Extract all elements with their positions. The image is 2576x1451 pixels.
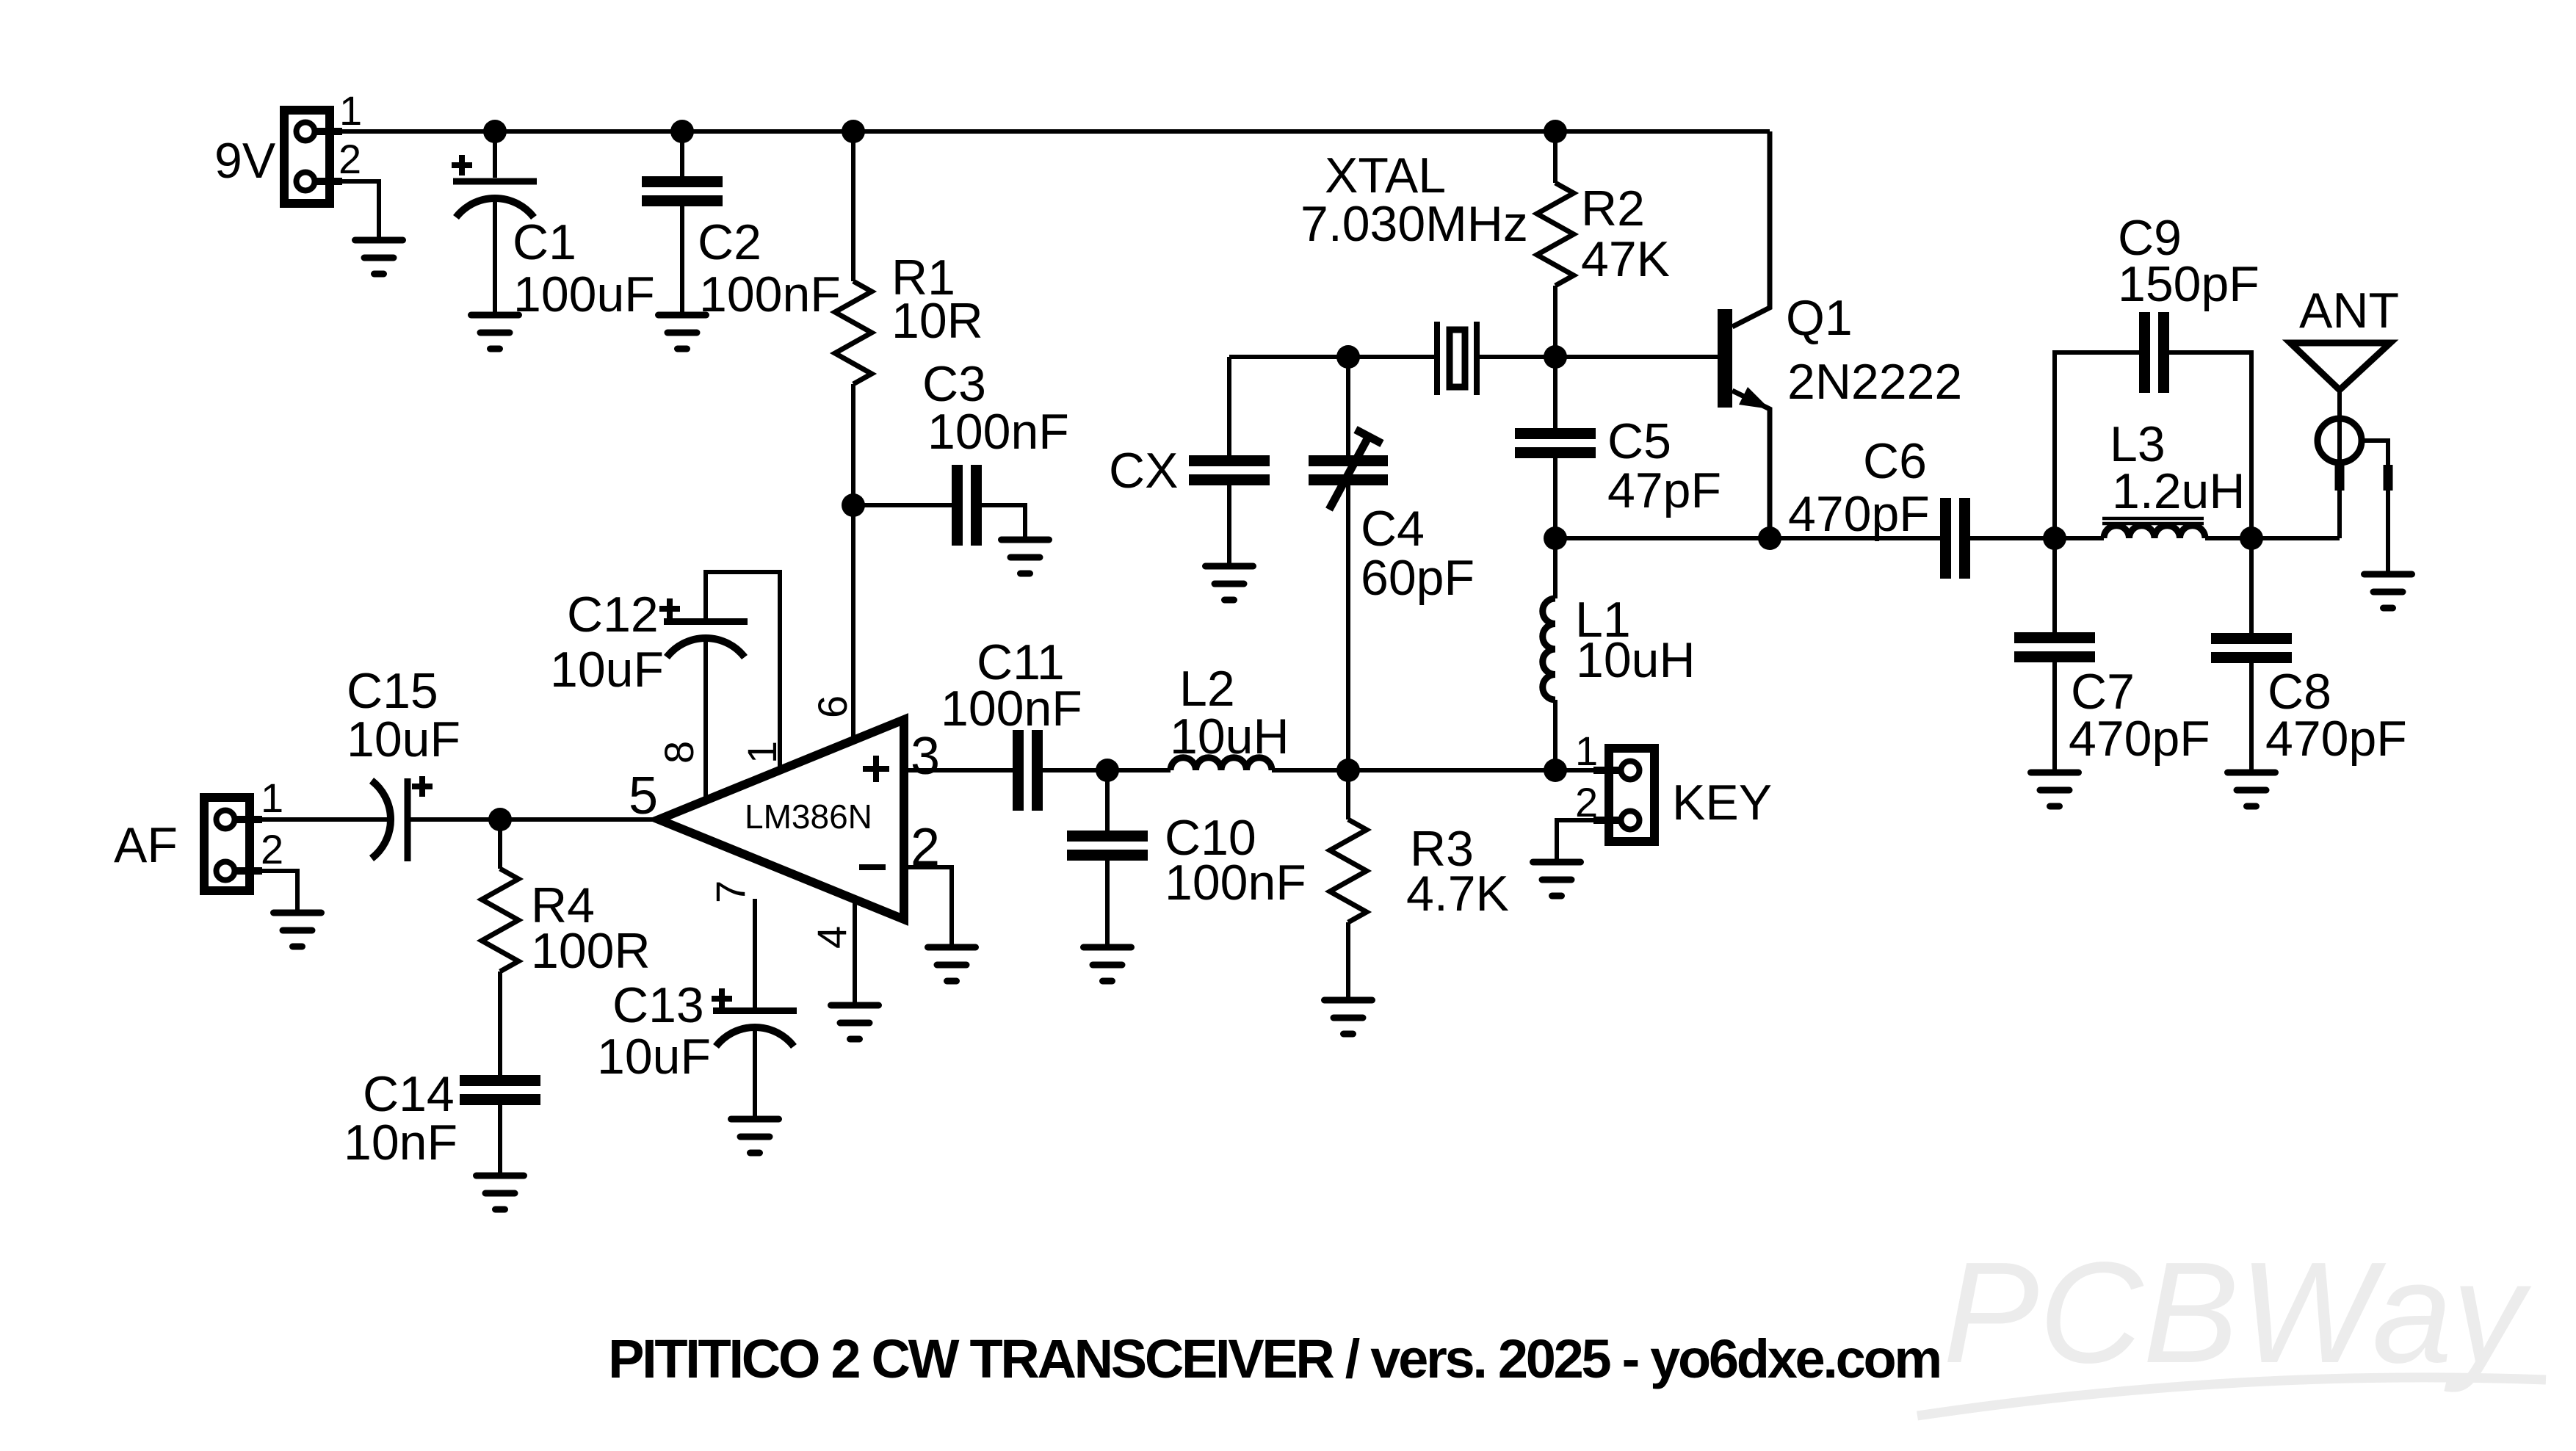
- wire U1 pin3 to C11: [904, 768, 1013, 772]
- svg-text:KEY: KEY: [1672, 775, 1772, 831]
- ground U1 pin4: [831, 1005, 879, 1039]
- svg-text:LM386N: LM386N: [745, 797, 872, 836]
- svg-text:C2: C2: [698, 214, 761, 270]
- svg-text:10uF: 10uF: [597, 1029, 711, 1085]
- svg-text:6: 6: [809, 695, 855, 718]
- wire C12 top to pin1: [706, 572, 780, 771]
- svg-text:10nF: 10nF: [344, 1115, 457, 1170]
- crystal XTAL: [1348, 322, 1555, 395]
- capacitor C10: [1067, 770, 1148, 947]
- ground C2: [659, 315, 706, 349]
- wire bus R1 to R2: [853, 129, 1555, 134]
- resistor R1: [835, 131, 872, 505]
- ground C13: [731, 1119, 779, 1153]
- svg-text:CX: CX: [1109, 443, 1178, 499]
- wire L3 node to antenna: [2251, 536, 2340, 540]
- ground 9V pin2: [355, 240, 403, 274]
- wire KEY pin2 to ground: [1557, 820, 1595, 862]
- ground C10: [1084, 947, 1132, 981]
- ground C8: [2228, 772, 2276, 806]
- svg-text:4.7K: 4.7K: [1406, 866, 1509, 922]
- inductor L2: [1107, 758, 1348, 770]
- watermark PCBWay: [1917, 1232, 2546, 1416]
- svg-text:AF: AF: [114, 817, 178, 873]
- svg-text:1: 1: [1575, 728, 1598, 774]
- svg-text:2: 2: [261, 826, 283, 872]
- wire base node to Q1: [1555, 355, 1718, 359]
- node bus-C2: [670, 120, 694, 143]
- node L3 right: [2240, 527, 2263, 550]
- node R1-C3-pin6: [842, 493, 865, 517]
- transistor Q1 2N2222: [1718, 131, 1770, 538]
- wire emitter row: [1555, 536, 1770, 540]
- svg-text:C14: C14: [363, 1066, 455, 1122]
- svg-text:10uH: 10uH: [1170, 709, 1289, 764]
- ground CX: [1206, 566, 1253, 600]
- ground R3: [1325, 1000, 1372, 1034]
- node C4-XTAL-CX: [1336, 345, 1360, 369]
- inductor L1: [1543, 538, 1555, 770]
- capacitor C1 (polarized): [452, 131, 537, 315]
- svg-text:ANT: ANT: [2299, 283, 2399, 339]
- ground ANT shield: [2365, 574, 2412, 608]
- capacitor CX: [1189, 357, 1270, 566]
- svg-text:150pF: 150pF: [2118, 256, 2260, 312]
- svg-text:5: 5: [629, 767, 658, 825]
- svg-text:9V: 9V: [214, 133, 276, 189]
- capacitor C7: [2014, 538, 2095, 772]
- capacitor C5: [1515, 357, 1596, 538]
- wire pin6 of U1: [851, 505, 855, 740]
- wire AF pin1 to C15: [254, 817, 389, 822]
- svg-text:C15: C15: [347, 663, 438, 719]
- wire KEY pin1: [1555, 768, 1595, 772]
- node C11-C10-L2: [1096, 759, 1119, 782]
- wire C15 to U1 pin5: [410, 817, 659, 822]
- wire bus C1 to C2: [495, 129, 682, 134]
- svg-text:2: 2: [339, 136, 361, 182]
- node L2-R3-C4: [1336, 759, 1360, 782]
- capacitor C6: [1770, 498, 2055, 579]
- antenna ANT: [2290, 343, 2390, 574]
- svg-text:10uF: 10uF: [550, 642, 664, 698]
- svg-text:C6: C6: [1863, 433, 1927, 489]
- wire CX to C4 node: [1229, 355, 1348, 359]
- svg-text:10uH: 10uH: [1576, 632, 1696, 688]
- resistor R2: [1537, 131, 1574, 357]
- ground C14: [477, 1176, 524, 1209]
- svg-text:C1: C1: [513, 214, 576, 270]
- svg-text:60pF: 60pF: [1361, 550, 1475, 606]
- node L3 left: [2043, 527, 2066, 550]
- svg-text:470pF: 470pF: [2265, 711, 2407, 767]
- ground C7: [2031, 772, 2079, 806]
- connector KEY: [1593, 748, 1654, 842]
- svg-text:7.030MHz: 7.030MHz: [1300, 196, 1528, 252]
- svg-text:C13: C13: [612, 977, 704, 1033]
- node C5-L1: [1544, 527, 1567, 550]
- node bus-R2: [1544, 120, 1567, 143]
- node bus-R1: [842, 120, 865, 143]
- svg-text:47pF: 47pF: [1607, 463, 1721, 518]
- capacitor C3: [853, 465, 1025, 546]
- svg-text:100nF: 100nF: [941, 681, 1082, 737]
- svg-text:7: 7: [707, 880, 753, 903]
- wire U1 pin4 to ground: [853, 899, 857, 1005]
- svg-text:2N2222: 2N2222: [1787, 354, 1962, 410]
- resistor R3: [1330, 770, 1367, 1000]
- svg-text:C12: C12: [567, 587, 659, 643]
- wire C12 bottom to pin8: [703, 638, 708, 800]
- svg-text:470pF: 470pF: [2069, 711, 2210, 767]
- wire 9V pin1 to C1: [334, 129, 495, 134]
- resistor R4: [482, 819, 518, 1075]
- svg-text:10uF: 10uF: [347, 712, 460, 767]
- wire L2 node to KEY node: [1348, 768, 1555, 772]
- svg-text:1: 1: [261, 775, 283, 821]
- svg-text:PCBWay: PCBWay: [1943, 1232, 2531, 1393]
- svg-text:100uF: 100uF: [513, 267, 655, 322]
- capacitor C13 (polarized): [712, 899, 797, 1119]
- wire C11 to C10 node: [1043, 768, 1107, 772]
- capacitor C8: [2211, 538, 2292, 772]
- svg-text:C4: C4: [1361, 501, 1425, 557]
- wire 9V pin2 to ground: [334, 181, 379, 240]
- capacitor C11: [1013, 730, 1043, 811]
- ground C1: [471, 315, 519, 349]
- wire AF pin2 to ground: [254, 871, 297, 913]
- wire bus C2 to R1: [682, 129, 853, 134]
- svg-text:1: 1: [339, 87, 362, 134]
- ground KEY pin2: [1533, 862, 1581, 896]
- svg-text:10R: 10R: [891, 293, 983, 349]
- capacitor C12 (polarized): [659, 598, 748, 657]
- wire U1 pin2 to ground: [904, 867, 952, 947]
- svg-text:1: 1: [739, 741, 785, 764]
- svg-text:PITITICO 2 CW TRANSCEIVER / ve: PITITICO 2 CW TRANSCEIVER / vers. 2025 -…: [608, 1328, 1940, 1389]
- ground U1 pin2: [928, 947, 976, 981]
- capacitor C15 (polarized): [372, 776, 433, 861]
- node R2-Q1 base: [1544, 345, 1567, 369]
- svg-text:R2: R2: [1581, 181, 1645, 236]
- svg-text:C5: C5: [1607, 413, 1671, 469]
- ground C3: [1002, 540, 1049, 573]
- svg-text:47K: 47K: [1581, 231, 1670, 287]
- svg-text:3: 3: [911, 727, 940, 786]
- svg-text:1.2uH: 1.2uH: [2112, 463, 2245, 519]
- svg-text:4: 4: [808, 926, 855, 949]
- node L1-KEY: [1544, 759, 1567, 782]
- connector AF: [204, 797, 262, 891]
- capacitor C2: [642, 131, 723, 315]
- svg-text:470pF: 470pF: [1788, 486, 1930, 542]
- svg-text:100nF: 100nF: [927, 404, 1069, 460]
- op-amp U1 LM386N: [659, 720, 904, 919]
- svg-text:100R: 100R: [531, 923, 651, 979]
- node bus-C1: [483, 120, 507, 143]
- svg-text:100nF: 100nF: [1165, 855, 1306, 911]
- capacitor C9: [2055, 312, 2251, 538]
- connector J1 9V: [284, 110, 342, 203]
- capacitor C4 (trimmer): [1309, 357, 1388, 770]
- svg-text:XTAL: XTAL: [1325, 148, 1446, 203]
- node C15-R4: [488, 808, 512, 831]
- node Q1 emitter-C6: [1758, 527, 1781, 550]
- svg-text:8: 8: [656, 741, 702, 764]
- svg-text:100nF: 100nF: [699, 267, 841, 322]
- wire bus R2 to Q1 collector: [1555, 129, 1770, 134]
- ground AF pin2: [274, 913, 322, 947]
- svg-text:Q1: Q1: [1786, 290, 1853, 346]
- inductor L3: [2055, 518, 2251, 538]
- capacitor C14: [460, 1075, 540, 1176]
